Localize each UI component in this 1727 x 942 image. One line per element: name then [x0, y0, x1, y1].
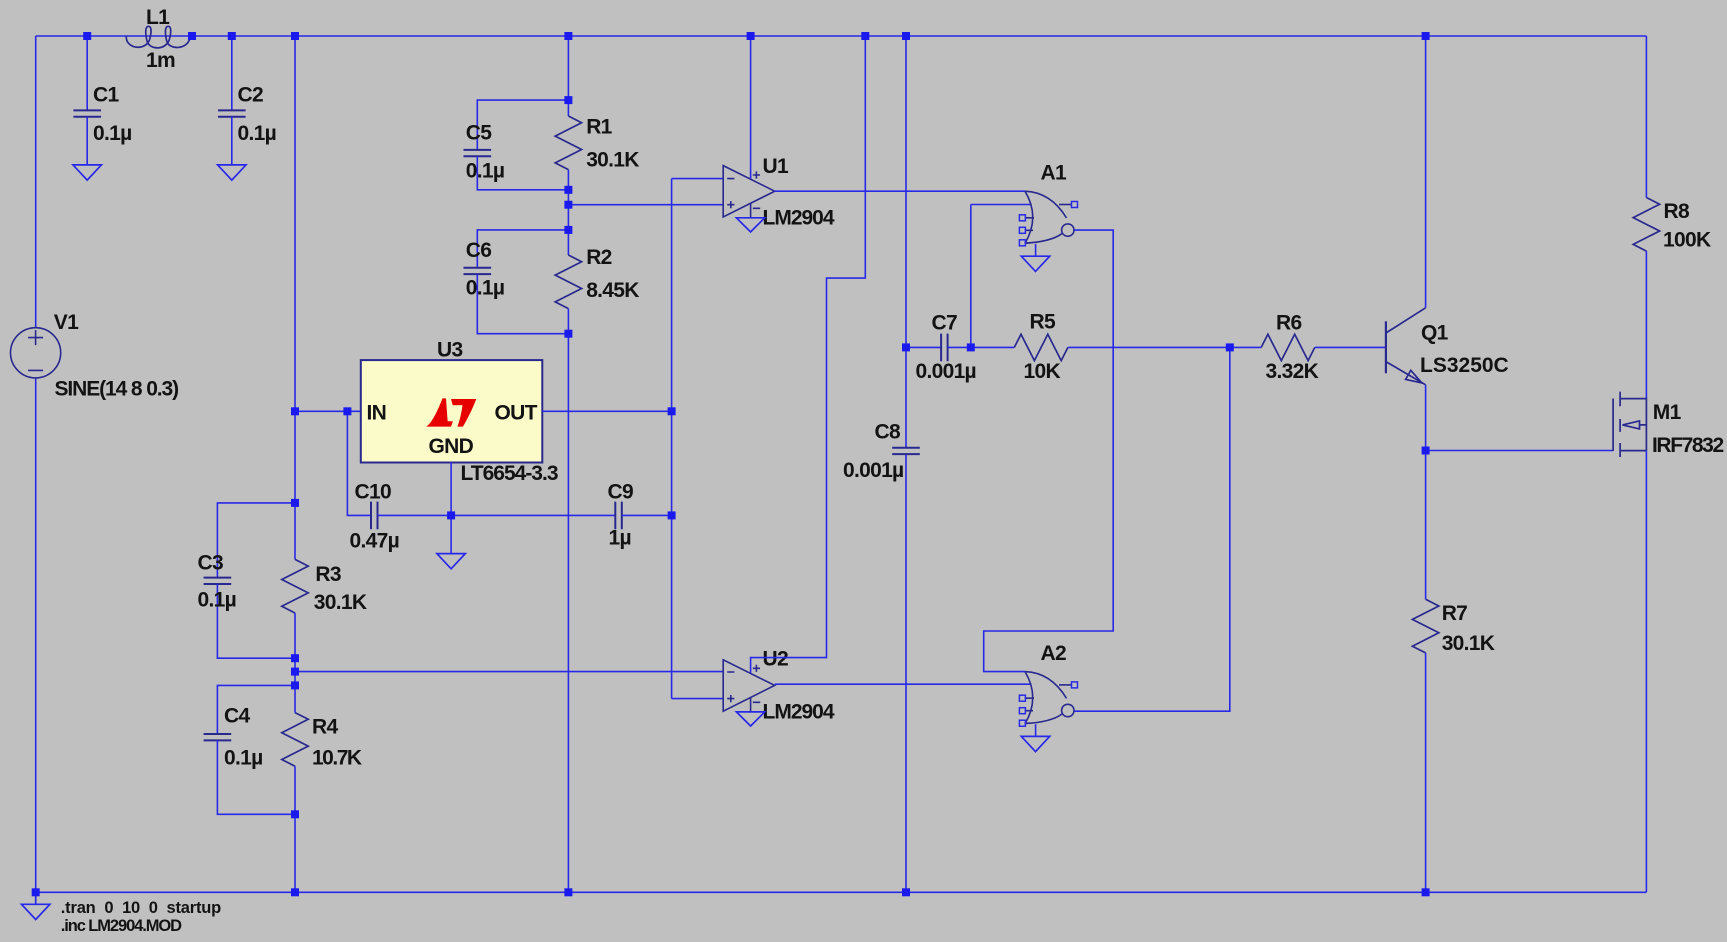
svg-text:U3: U3 [437, 339, 462, 362]
wire C2 bottom lead [231, 117, 233, 165]
capacitor C4 [204, 734, 232, 740]
junction C8 node / C7 left [902, 343, 910, 351]
capacitor C10 [371, 502, 378, 530]
svg-text:OUT: OUT [495, 401, 538, 424]
svg-text:.tran 0 10 0 startup: .tran 0 10 0 startup [61, 899, 221, 917]
svg-text:R8: R8 [1664, 200, 1690, 223]
svg-text:A2: A2 [1041, 642, 1066, 665]
svg-text:R4: R4 [312, 715, 338, 738]
ground under U1 [736, 218, 764, 232]
resistor R8 [1633, 198, 1659, 252]
wire C8 column upper [905, 36, 907, 448]
LT logo on U3 [426, 398, 476, 426]
wire R4 bottom to ground rail [294, 766, 296, 892]
wire left rail to V1 plus [35, 36, 37, 328]
svg-text:GND: GND [429, 435, 474, 458]
junction bottom rail / R7 column [1422, 888, 1430, 896]
junction C3 top / R3 top [291, 499, 299, 507]
svg-text:C6: C6 [466, 239, 491, 262]
resistor R1 [555, 116, 581, 170]
svg-text:R1: R1 [586, 116, 612, 139]
wire divider tap to U2 inverting input [295, 671, 723, 673]
unconnected input pin square 3 of A2 [1019, 695, 1025, 701]
junction R2 bottom / C6 [564, 330, 572, 338]
ground under U2 [736, 712, 764, 726]
ground bottom left [22, 892, 50, 919]
wire C4 bottom loop [217, 740, 295, 814]
wire C1 top lead [86, 36, 88, 110]
capacitor C1 [73, 110, 101, 116]
wire U3 gnd stub [450, 515, 452, 553]
ground under A2 [1021, 736, 1049, 751]
capacitor C3 [204, 578, 232, 584]
voltage source V1 [10, 328, 60, 378]
resistor R4 [282, 713, 308, 767]
svg-text:100K: 100K [1663, 228, 1711, 251]
svg-text:30.1K: 30.1K [314, 591, 367, 614]
wire R2 bottom column to ground rail [567, 309, 569, 893]
junction U1+ tap [564, 201, 572, 209]
voltage reference U3 box [361, 360, 543, 462]
junction bottom rail / ground [32, 888, 40, 896]
svg-text:0.1µ: 0.1µ [238, 122, 277, 145]
wire A1 ground stub [1035, 244, 1037, 256]
op-amp U1 [723, 166, 775, 218]
junction bottom rail / R2 column [564, 888, 572, 896]
svg-text:0.1µ: 0.1µ [466, 159, 505, 182]
junction R1 bottom / C5 [564, 186, 572, 194]
svg-text:0.1µ: 0.1µ [198, 589, 237, 612]
wire U1 V+ to rail [750, 36, 752, 179]
capacitor C7 [941, 334, 948, 362]
svg-text:U2: U2 [763, 648, 788, 671]
unconnected input pin square 5 of A2 [1019, 720, 1025, 726]
wire R6 to Q1 base [1315, 346, 1386, 348]
junction C4 bottom / R4 bottom [291, 810, 299, 818]
unconnected input pin square 5 of A1 [1019, 240, 1025, 246]
wire input node column upper [294, 36, 296, 503]
svg-text:U1: U1 [763, 155, 789, 178]
wire R8 bottom to M1 drain [1645, 251, 1647, 399]
ground under C2 [218, 165, 246, 180]
svg-text:8.45K: 8.45K [586, 279, 639, 302]
junction input node / U3 IN [291, 407, 299, 415]
svg-text:IN: IN [367, 401, 387, 424]
junction C2 tap [228, 32, 236, 40]
capacitor C9 [615, 502, 622, 530]
junction R1 top / C5 [564, 96, 572, 104]
svg-text:0.1µ: 0.1µ [466, 276, 505, 299]
svg-text:A1: A1 [1041, 161, 1067, 184]
junction C4 top / R4 top [291, 681, 299, 689]
wire C10 left lead [347, 411, 371, 515]
svg-text:10.7K: 10.7K [312, 746, 362, 769]
wire C1 bottom lead [86, 117, 88, 165]
wire U3 GND pin lead [450, 463, 452, 516]
svg-text:L1: L1 [146, 6, 170, 29]
capacitor C2 [218, 110, 246, 116]
junction R1 column tap [564, 32, 572, 40]
svg-text:C9: C9 [608, 480, 633, 503]
svg-text:C2: C2 [238, 84, 263, 107]
wire C2 top lead [231, 36, 233, 110]
wire U2 V+ jog to rail [751, 36, 866, 673]
wire Q1 collector to rail [1425, 36, 1427, 308]
wire to U1 inverting input [672, 178, 724, 180]
junction C9 right / reference column [668, 511, 676, 519]
svg-text:10K: 10K [1024, 360, 1061, 383]
wire reference node column [671, 179, 673, 699]
svg-text:IRF7832: IRF7832 [1652, 434, 1723, 457]
resistor R6 [1261, 334, 1315, 360]
inductor L1 [126, 26, 190, 48]
svg-text:.inc LM2904.MOD: .inc LM2904.MOD [61, 917, 182, 935]
junction L1 right pin [188, 32, 196, 40]
svg-text:0.1µ: 0.1µ [224, 746, 263, 769]
wire C9 right lead [622, 514, 672, 516]
unconnected Q pin square of A2 [1072, 682, 1078, 688]
wire R5 to R6 node [1068, 346, 1230, 348]
junction U2- tap [291, 668, 299, 676]
wire top supply rail [36, 35, 1647, 37]
svg-text:R5: R5 [1030, 310, 1056, 333]
wire C7 to R5 [948, 346, 1015, 348]
wire C6 top loop [477, 230, 568, 268]
svg-text:0.001µ: 0.001µ [843, 459, 903, 482]
svg-text:LS3250C: LS3250C [1420, 354, 1509, 377]
capacitor C6 [464, 268, 492, 274]
junction U1 V+ tap [747, 32, 755, 40]
wire R6 left lead [1230, 346, 1261, 348]
svg-text:LT6654-3.3: LT6654-3.3 [461, 462, 558, 485]
junction U3 GND / C10 / C9 [447, 511, 455, 519]
wire M1 source to ground rail [1645, 451, 1647, 893]
svg-text:LM2904: LM2904 [763, 206, 835, 229]
junction C3 bottom / R3 bottom [291, 654, 299, 662]
wire Q1 emitter to R7 [1425, 385, 1427, 600]
junction input column tap [291, 32, 299, 40]
wire C7 node up to A1 input [970, 205, 972, 348]
wire A2 output loop to R5/R6 node [1074, 347, 1230, 711]
capacitor C8 [892, 448, 920, 454]
wire C5 bottom loop [477, 156, 568, 190]
wire Q1 emitter node to M1 gate [1426, 450, 1614, 452]
transistor Q1 [1386, 308, 1426, 385]
NOR gate A1 body [1025, 191, 1074, 243]
wire U3 OUT [542, 410, 671, 412]
junction U3 OUT node [668, 407, 676, 415]
wire to U2 non-inverting input [672, 698, 724, 700]
svg-text:30.1K: 30.1K [586, 149, 639, 172]
wire divider tap to U1 non-inverting input [568, 204, 723, 206]
wire R7 bottom to ground rail [1425, 653, 1427, 892]
svg-text:30.1K: 30.1K [1442, 632, 1495, 655]
wire C4 top loop [217, 685, 295, 734]
junction bottom rail / R4 column [291, 888, 299, 896]
capacitor C5 [464, 150, 492, 156]
wire C8 column lower [905, 454, 907, 892]
unconnected input pin square 4 of A2 [1019, 708, 1025, 714]
svg-text:Q1: Q1 [1421, 321, 1449, 344]
ground under A1 [1021, 256, 1049, 271]
svg-text:R7: R7 [1442, 602, 1467, 625]
wire C3 top loop [217, 503, 295, 578]
NOR gate A2 body [1025, 672, 1074, 724]
resistor R7 [1412, 599, 1438, 653]
svg-text:C1: C1 [93, 84, 119, 107]
svg-text:C4: C4 [224, 704, 250, 727]
svg-text:V1: V1 [54, 311, 79, 334]
wire rail down to R8 [1645, 36, 1647, 198]
svg-text:C3: C3 [198, 551, 223, 574]
ground under U3 [437, 554, 465, 569]
wire U2 output [775, 683, 1032, 685]
wire C10 right lead [378, 514, 452, 516]
svg-text:R3: R3 [315, 563, 340, 586]
junction R2 top / C6 [564, 226, 572, 234]
unconnected Q pin square of A1 [1072, 202, 1078, 208]
wire R1 top lead [567, 36, 569, 116]
resistor R2 [555, 255, 581, 309]
svg-text:SINE(14 8 0.3): SINE(14 8 0.3) [55, 377, 179, 400]
wire bottom ground rail [36, 891, 1647, 893]
svg-text:C8: C8 [875, 420, 901, 443]
svg-text:M1: M1 [1653, 401, 1682, 424]
wire V1 minus to bottom rail [35, 378, 37, 892]
svg-text:0.47µ: 0.47µ [350, 529, 399, 552]
wire into A1 second input [971, 204, 1032, 206]
svg-text:1µ: 1µ [609, 526, 631, 549]
wire R1 bottom to R2 top [567, 170, 569, 255]
wire R4 top lead [294, 685, 296, 712]
op-amp U2 [723, 660, 775, 712]
junction C10 tap [343, 407, 351, 415]
wire R3 top lead [294, 503, 296, 560]
wire A1 output loop to A2 input [984, 230, 1113, 671]
junction bottom rail / C8 column [902, 888, 910, 896]
junction R5 right / R6 / A2 output [1226, 343, 1234, 351]
wire C8 node to C7 [906, 346, 941, 348]
junction Q1 collector tap [1422, 32, 1430, 40]
svg-text:C5: C5 [466, 121, 492, 144]
wire C3 bottom loop [217, 584, 295, 658]
junction C8 column tap [902, 32, 910, 40]
svg-text:LM2904: LM2904 [763, 701, 835, 724]
junction U2 V+ tap [861, 32, 869, 40]
junction Q1 emitter / M1 gate / R7 [1422, 447, 1430, 455]
wire C6 bottom loop [477, 274, 568, 334]
svg-text:R2: R2 [586, 246, 611, 269]
svg-text:C7: C7 [932, 311, 957, 334]
junction C7 right / R5 / A1 input [967, 343, 975, 351]
resistor R3 [282, 559, 308, 613]
wire node to U3 IN pin [295, 410, 361, 412]
svg-text:1m: 1m [146, 49, 175, 72]
svg-text:3.32K: 3.32K [1266, 360, 1319, 383]
svg-text:C10: C10 [355, 480, 391, 503]
MOSFET M1 [1613, 392, 1646, 457]
unconnected input pin square 3 of A1 [1019, 215, 1025, 221]
wire R3 bottom to R4 top node stack [294, 613, 296, 685]
wire A2 ground stub [1035, 724, 1037, 736]
svg-text:0.001µ: 0.001µ [916, 360, 976, 383]
svg-text:0.1µ: 0.1µ [93, 122, 132, 145]
wire C5 top loop [477, 100, 568, 150]
resistor R5 [1014, 334, 1068, 360]
unconnected input pin square 4 of A1 [1019, 227, 1025, 233]
svg-text:R6: R6 [1276, 311, 1301, 334]
junction C1 tap [83, 32, 91, 40]
wire U1 output [775, 190, 1025, 192]
ground under C1 [73, 165, 101, 180]
wire GND node to C9 [451, 514, 615, 516]
